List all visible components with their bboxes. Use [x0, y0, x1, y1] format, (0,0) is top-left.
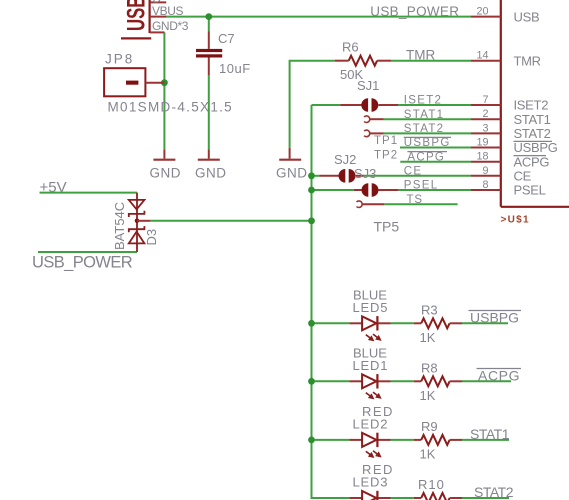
svg-text:9: 9 — [482, 165, 488, 177]
svg-text:STAT2: STAT2 — [514, 126, 551, 141]
svg-text:USB_POWER: USB_POWER — [370, 4, 459, 19]
pin 18 ACPG stub — [471, 161, 501, 163]
jumper SJ3 — [354, 183, 399, 197]
resistor R10 — [414, 493, 462, 500]
svg-text:TS: TS — [407, 194, 423, 206]
pin 20 USB stub — [471, 16, 501, 18]
pin 8 PSEL stub — [471, 189, 501, 191]
svg-text:8: 8 — [482, 179, 488, 191]
LED LED2 red — [349, 433, 390, 461]
wire R10 to STAT2 label — [462, 497, 509, 499]
svg-text:TP1: TP1 — [374, 135, 398, 147]
jumper SJ2 — [319, 169, 364, 183]
svg-text:USBPG: USBPG — [404, 137, 451, 149]
svg-text:R10: R10 — [418, 477, 445, 492]
svg-text:1K: 1K — [420, 447, 436, 462]
diode D3 BAT54C dual schottky — [129, 193, 151, 252]
svg-text:GND: GND — [150, 166, 182, 181]
ground GND (right, under R6 wire) — [279, 148, 301, 160]
wire R8 to ACPG label — [462, 380, 511, 382]
wire TS from TP5 — [384, 203, 457, 205]
node junction JP8 / GND wire — [161, 79, 168, 86]
svg-text:1K: 1K — [420, 388, 436, 403]
wire ISET2 SJ1 to pin 7 — [398, 104, 471, 106]
wire GND*3 pin down to GND — [163, 32, 165, 149]
svg-text:2: 2 — [482, 108, 488, 120]
pin USB VBUS stub — [150, 16, 167, 18]
svg-text:R6: R6 — [342, 39, 359, 54]
LED LED1 blue — [349, 374, 390, 402]
svg-text:GND: GND — [195, 166, 227, 181]
svg-text:PSEL: PSEL — [404, 180, 439, 192]
pin 9 CE stub — [471, 175, 501, 177]
wire R9 to STAT1 label — [462, 439, 509, 441]
svg-text:ISET2: ISET2 — [404, 95, 442, 107]
svg-text:R9: R9 — [421, 419, 438, 434]
svg-text:R3: R3 — [421, 302, 438, 317]
svg-text:TMR: TMR — [514, 53, 541, 68]
svg-text:SJ1: SJ1 — [357, 78, 379, 93]
svg-text:USBPG: USBPG — [514, 140, 558, 155]
testpoint TP5 — [357, 201, 385, 208]
svg-text:C7: C7 — [218, 31, 235, 46]
resistor R9 — [414, 435, 462, 445]
svg-text:TP2: TP2 — [374, 150, 398, 162]
svg-text:ACPG: ACPG — [514, 154, 550, 169]
svg-text:CE: CE — [514, 169, 532, 184]
svg-text:JP8: JP8 — [105, 52, 134, 67]
pin 14 TMR stub — [471, 60, 501, 62]
svg-text:USB: USB — [514, 9, 540, 24]
svg-text:19: 19 — [476, 137, 488, 149]
svg-text:10uF: 10uF — [219, 61, 251, 76]
wire LED3 to R10 — [391, 497, 414, 499]
wire ISET2 bus to SJ1 — [312, 104, 341, 106]
svg-text:+5V: +5V — [40, 179, 67, 196]
svg-text:D3: D3 — [144, 229, 159, 246]
wire CE bus to SJ2 — [312, 175, 320, 177]
wire LED2 row anode — [312, 439, 350, 441]
svg-text:R8: R8 — [421, 360, 438, 375]
wire USBPG to pin 19 — [400, 147, 471, 149]
svg-text:ISET2: ISET2 — [514, 98, 549, 113]
ground GND (middle, under C7) — [198, 149, 220, 159]
svg-text:1K: 1K — [420, 330, 436, 345]
node junction bus / PSEL — [308, 187, 315, 194]
svg-text:LED5: LED5 — [353, 300, 389, 315]
svg-text:GND: GND — [276, 166, 308, 181]
testpoint TP1 — [364, 116, 384, 123]
pin 19 USBPG stub — [471, 147, 501, 149]
wire LED5 row anode — [312, 322, 350, 324]
ground GND (left, under USB shell) — [153, 149, 175, 159]
svg-text:20: 20 — [476, 6, 488, 18]
wire C7 bottom to GND — [208, 75, 210, 149]
wire R6 right to TMR pin — [391, 60, 471, 62]
node junction bus / LED5 — [308, 320, 315, 327]
svg-text:LED1: LED1 — [353, 358, 389, 373]
svg-text:ACPG: ACPG — [407, 151, 445, 163]
svg-text:VBUS: VBUS — [152, 4, 183, 18]
node junction bus / D3 wire — [308, 217, 315, 224]
wire STAT1 TP1 to pin 2 — [384, 118, 471, 120]
svg-text:M01SMD-4.5X1.5: M01SMD-4.5X1.5 — [108, 100, 234, 115]
svg-text:TP5: TP5 — [374, 219, 400, 235]
wire D3 common cathode to bus — [150, 220, 311, 222]
resistor R3 — [414, 318, 462, 328]
wire ACPG to pin 18 — [400, 161, 471, 163]
svg-text:USBPG: USBPG — [470, 309, 519, 325]
svg-text:USB_POWER: USB_POWER — [32, 254, 133, 272]
wire C7 top drop — [208, 17, 210, 32]
node junction bus / LED1 — [308, 378, 315, 385]
connector JP8 — [104, 68, 164, 96]
svg-text:3: 3 — [482, 122, 488, 134]
svg-text:14: 14 — [476, 50, 488, 62]
svg-text:18: 18 — [476, 151, 488, 163]
svg-text:SJ2: SJ2 — [334, 152, 356, 167]
LED LED5 blue — [349, 316, 390, 344]
pin USB D- stub — [150, 1, 167, 3]
wire LED5 to R3 — [391, 322, 414, 324]
svg-text:7: 7 — [482, 94, 488, 106]
jumper SJ1 — [340, 98, 398, 112]
resistor R6 — [335, 56, 391, 66]
svg-text:STAT2: STAT2 — [474, 484, 514, 500]
LED LED3 red — [349, 491, 390, 500]
testpoint TP2 — [364, 130, 384, 137]
svg-text:TMR: TMR — [406, 47, 435, 62]
capacitor C7 — [196, 32, 222, 76]
pin USB GND*3 stub — [150, 31, 165, 33]
svg-text:USB: USB — [122, 0, 150, 31]
wire PSEL SJ3 to pin 8 — [398, 189, 471, 191]
wire LED1 to R8 — [391, 380, 414, 382]
svg-text:LED3: LED3 — [353, 475, 389, 490]
connector USB (partial, top left) — [121, 0, 151, 38]
wire USB_POWER to D3 bottom anode — [38, 251, 137, 253]
svg-text:STAT1: STAT1 — [514, 112, 551, 127]
wire USB_POWER net (VBUS to IC pin 20) — [166, 16, 471, 18]
wire +5V to D3 anode — [40, 192, 138, 194]
wire power bus vertical — [312, 105, 350, 498]
pin 3 STAT2 stub — [471, 132, 501, 134]
wire LED1 row anode — [312, 380, 350, 382]
svg-text:STAT1: STAT1 — [470, 426, 510, 442]
svg-text:ACPG: ACPG — [478, 367, 520, 383]
svg-text:STAT2: STAT2 — [404, 123, 445, 135]
svg-text:LED2: LED2 — [353, 417, 389, 432]
resistor R8 — [414, 376, 462, 386]
svg-text:GND*3: GND*3 — [152, 19, 189, 33]
pin 2 STAT1 stub — [471, 118, 501, 120]
node junction USB_POWER / C7 — [205, 13, 212, 20]
wire LED2 to R9 — [391, 439, 414, 441]
svg-text:BAT54C: BAT54C — [112, 202, 127, 250]
svg-text:STAT1: STAT1 — [404, 109, 445, 121]
wire PSEL bus to SJ3 — [312, 189, 354, 191]
svg-text:PSEL: PSEL — [514, 183, 546, 198]
wire CE SJ2 to pin 9 — [364, 175, 471, 177]
svg-text:CE: CE — [404, 165, 423, 177]
pin 7 ISET2 stub — [471, 104, 501, 106]
node junction bus / CE — [308, 172, 315, 179]
wire R6 left to GND — [290, 61, 335, 148]
node junction bus / LED2 — [308, 437, 315, 444]
wire R3 to USBPG label — [462, 322, 508, 324]
svg-text:>U$1: >U$1 — [501, 215, 530, 226]
svg-text:SJ3: SJ3 — [354, 166, 376, 181]
op IC U$1 body edge — [501, 0, 569, 207]
wire STAT2 TP2 to pin 3 — [384, 132, 471, 134]
